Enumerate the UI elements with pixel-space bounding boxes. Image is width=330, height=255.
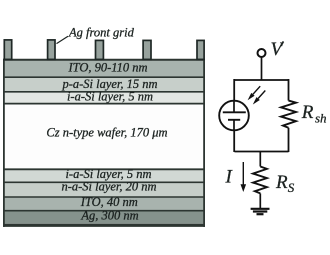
- svg-text:ITO, 40 nm: ITO, 40 nm: [80, 195, 138, 209]
- svg-text:ITO, 90-110 nm: ITO, 90-110 nm: [67, 61, 147, 75]
- svg-text:I: I: [225, 167, 234, 188]
- svg-text:S: S: [288, 180, 295, 195]
- svg-text:R: R: [275, 172, 288, 193]
- svg-text:Ag front grid: Ag front grid: [68, 26, 135, 40]
- svg-text:sh: sh: [315, 111, 327, 126]
- svg-text:n-a-Si layer, 20 nm: n-a-Si layer, 20 nm: [61, 180, 156, 194]
- svg-text:i-a-Si layer, 5 nm: i-a-Si layer, 5 nm: [67, 90, 153, 104]
- svg-text:Cz n-type wafer, 170 μm: Cz n-type wafer, 170 μm: [46, 125, 167, 139]
- svg-text:R: R: [301, 102, 314, 123]
- svg-text:Ag, 300 nm: Ag, 300 nm: [80, 209, 138, 223]
